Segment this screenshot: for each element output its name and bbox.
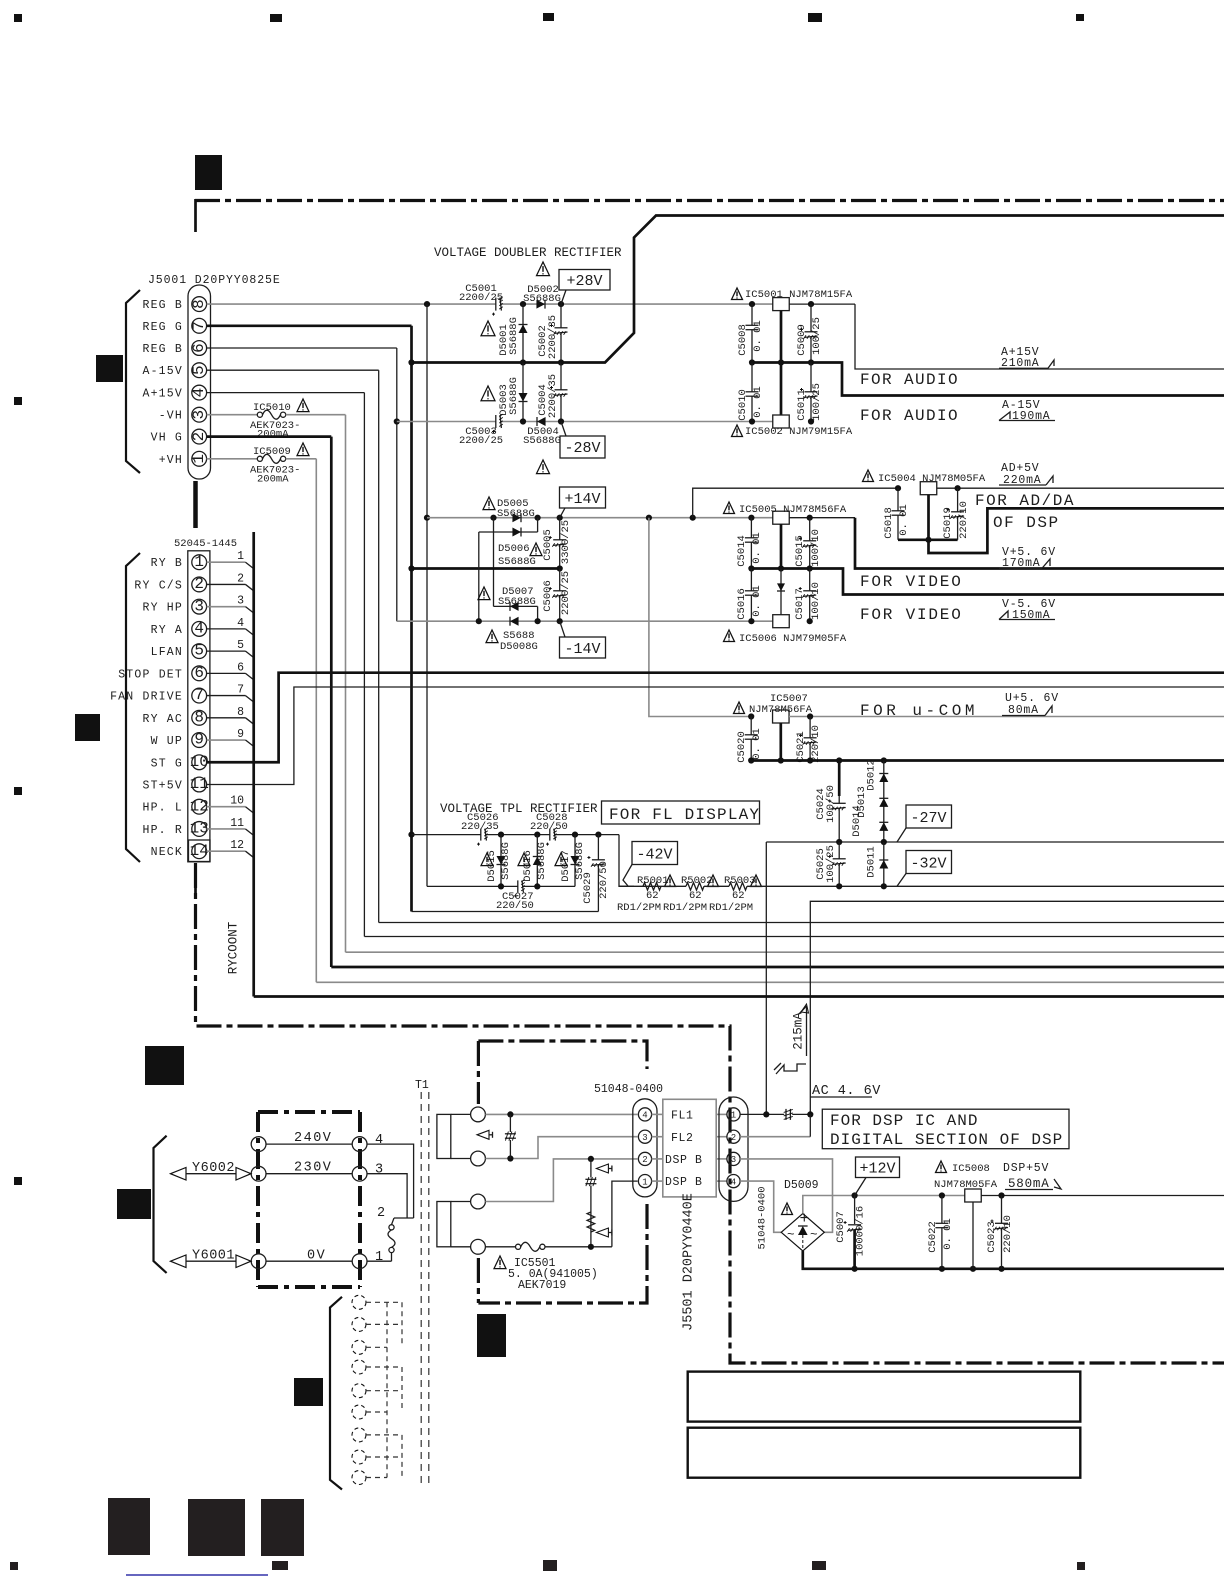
svg-text:8: 8 [237,706,244,719]
capacitor C5007 10000/16 [854,1196,856,1225]
J5001 pin 6 (REG B) [192,341,207,356]
wire mid ground row to A-15V rail [752,363,1224,396]
svg-text:62: 62 [689,890,702,902]
wire IC5005 ground [780,524,783,568]
svg-text:OF DSP: OF DSP [993,514,1060,532]
svg-text:6: 6 [190,343,208,353]
svg-text:4: 4 [375,1133,383,1148]
svg-text:D5014: D5014 [851,805,863,837]
capacitor C5015 100/10 [809,518,811,569]
resistor R5002 62 RD1/2PM [643,885,661,887]
svg-text:1: 1 [642,1177,647,1187]
capacitor C5029 220/50 [597,835,599,912]
capacitor C5017 100/10 [809,569,811,622]
svg-text:DSP B: DSP B [665,1176,703,1189]
svg-text:W UP: W UP [151,735,183,748]
wire V+5.6V output [855,518,1224,569]
svg-text:0. 01: 0. 01 [898,504,910,536]
wire pin1 +VH bus down at x=316.3 [315,459,317,983]
svg-text:6: 6 [237,661,244,674]
52045 pin 12 (HP. L) [192,799,207,814]
capacitor C5027 220/50 [518,879,522,893]
svg-text:215mA: 215mA [792,1012,806,1050]
arrow Y6002 [171,1168,187,1181]
svg-text:C5006: C5006 [542,580,554,612]
svg-text:220/50: 220/50 [530,821,568,833]
svg-text:RD1/2PM: RD1/2PM [709,902,753,914]
wire video mid row to V-5.6V [751,569,1224,595]
svg-text:100/10: 100/10 [810,529,822,567]
registration mark top 3 [543,13,554,21]
capacitor C5011 100/25 [810,363,812,422]
diode D5001 S5688G (vertical) [522,304,524,362]
svg-text:IC5001 NJM78M15FA: IC5001 NJM78M15FA [745,289,853,301]
wire winding1 top to 51048 pin4 [485,1113,637,1115]
svg-text:0. 01: 0. 01 [942,1218,954,1250]
sheet border left-middle (dash-dot) [196,863,1224,1363]
svg-text:S5688G: S5688G [498,556,536,568]
node +28V label box [559,270,610,291]
wire DSP B pin3 to bridge [740,1159,832,1232]
diode chain D5012 D5013 D5014 [883,761,885,843]
svg-text:J5001 D20PYY0825E: J5001 D20PYY0825E [148,274,281,287]
primary left bracket [154,1136,167,1273]
bottom small mark 3 [812,1561,826,1570]
svg-text:4: 4 [731,1177,736,1187]
wire 52045 pin 3 to ribbon [207,606,246,608]
svg-text:RY HP: RY HP [142,602,183,615]
52045 pin 7 (FAN DRIVE) [192,688,207,703]
svg-text:S5688G: S5688G [497,508,535,520]
wire pin3 -VH bus down at x=345.5 [345,415,347,953]
fold mark A [195,155,222,190]
svg-text:FOR AUDIO: FOR AUDIO [860,407,959,425]
52045 pin 6 (STOP DET) [192,666,207,681]
svg-text:RYCOONT: RYCOONT [227,921,241,974]
svg-text:C5022: C5022 [927,1221,939,1253]
svg-text:DSP B: DSP B [665,1154,703,1167]
51048 pin 3 [638,1130,651,1143]
svg-text:C5019: C5019 [942,507,954,539]
J5001 pin 7 (REG G) [192,318,207,333]
cable mark below J5001 [193,481,198,528]
wire AD feed from +14V rail [693,488,898,518]
svg-text:-42V: -42V [636,847,672,864]
svg-text:S5688G: S5688G [500,842,512,880]
wire IC5004 ground row [927,495,930,540]
wire pin8 REG B to +28V rail [207,303,773,305]
bottom square 1 [108,1498,150,1555]
svg-text:D5011: D5011 [866,846,878,878]
svg-text:14: 14 [190,842,209,860]
wire winding2 bottom to 51048 pin1 [612,1181,638,1247]
svg-text:2200/25: 2200/25 [459,292,503,304]
registration mark left 3 [14,1177,22,1185]
wire 52045 pin 13 to ribbon [207,828,246,830]
fold mark F [294,1378,323,1406]
J5001 pin 3 (-VH) [192,407,207,422]
svg-text:220/35: 220/35 [461,821,499,833]
interconnect box FL1/FL2/DSP B/DSP B [663,1099,716,1197]
svg-text:~: ~ [787,1228,795,1242]
svg-text:9: 9 [194,731,204,749]
svg-text:100/25: 100/25 [811,317,823,355]
svg-text:+: + [800,1210,810,1228]
registration mark top 2 [270,14,282,22]
capacitor C5003 2200/25 [496,414,500,429]
wire winding1 bottom to 51048 pin3 [485,1137,637,1159]
svg-text:5: 5 [237,639,244,652]
svg-text:VOLTAGE TPL RECTIFIER: VOLTAGE TPL RECTIFIER [440,802,598,816]
wire A+15V output with step [855,304,1224,369]
svg-text:RD1/2PM: RD1/2PM [617,902,661,914]
wire -42V line drop [619,835,634,887]
svg-text:9: 9 [237,728,244,741]
svg-text:12: 12 [230,839,244,852]
wire pin2 VH G (bus down at x=331.3) [207,435,332,438]
wire FL2 to AC4.6V vertical [740,1136,810,1138]
svg-text:1: 1 [194,553,204,571]
svg-text:2: 2 [190,432,208,442]
current step arrow [776,1064,806,1074]
svg-text:S5688G: S5688G [536,842,548,880]
svg-text:+28V: +28V [566,273,602,290]
svg-text:3: 3 [731,1155,736,1165]
svg-text:Y6002: Y6002 [192,1161,235,1176]
wire TPL bottom rail [498,883,504,889]
regulator IC5008 NJM78M05FA [936,1161,947,1173]
svg-text:2200/25: 2200/25 [560,571,572,615]
warning triangle below D5004 [537,460,550,474]
svg-text:ST G: ST G [151,757,183,770]
wire u-COM feed [649,518,751,717]
svg-text:0. 01: 0. 01 [752,386,764,418]
connector J5501 D20PYY0440E [719,1097,748,1201]
J5001 left bracket [126,290,140,473]
52045 pin 2 (RY C/S) [192,577,207,592]
svg-text:FOR FL DISPLAY: FOR FL DISPLAY [609,806,760,824]
svg-text:3: 3 [237,595,244,608]
svg-text:D5012: D5012 [866,759,878,791]
chassis arrow winding2 bottom [596,1228,608,1237]
svg-text:-27V: -27V [910,810,946,827]
wire 52045 pin 12 to ribbon [207,806,246,808]
revision box 2 [688,1428,1081,1478]
svg-text:IC5002 NJM79M15FA: IC5002 NJM79M15FA [745,426,853,438]
svg-text:5: 5 [190,365,208,375]
svg-text:FOR u-COM: FOR u-COM [860,702,978,720]
svg-text:S5688G: S5688G [523,435,561,447]
J5501 pin 3 [727,1152,740,1165]
51048 pin 4 [638,1108,651,1121]
capacitor C5004 2200/35 [560,363,562,422]
svg-text:AEK7019: AEK7019 [518,1279,566,1292]
svg-text:FL2: FL2 [671,1132,694,1145]
warning triangle left of D5001 [481,321,495,336]
svg-text:12: 12 [190,797,209,815]
J5501 pin 4 [727,1175,740,1188]
svg-text:-VH: -VH [159,410,183,423]
svg-text:10: 10 [190,753,209,771]
wire ST G (pin10) route [207,673,1224,763]
svg-text:C5007: C5007 [835,1211,847,1243]
capacitor C5014 0.01 [750,518,752,569]
J5501 pin 1 [727,1108,740,1121]
EMI capacitor across winding1 [509,1114,511,1158]
fuse IC5010 AEK7023-200mA on -VH [207,414,258,416]
diode D5011 [883,842,885,886]
svg-text:RD1/2PM: RD1/2PM [663,902,707,914]
svg-text:DIGITAL SECTION OF DSP: DIGITAL SECTION OF DSP [830,1131,1063,1149]
svg-text:FOR AUDIO: FOR AUDIO [860,371,959,389]
chassis arrow winding1 [477,1130,489,1139]
diode D5003 S5688G (vertical) [522,363,524,422]
wire pin4 A+15V (bus down at x=364.4) [207,392,365,394]
svg-text:VH G: VH G [151,432,183,445]
J5501 pin 2 [727,1130,740,1143]
svg-text:C5005: C5005 [542,529,554,561]
wire 52045 pin 7 to ribbon [207,695,246,697]
svg-text:200mA: 200mA [257,429,289,441]
svg-text:-14V: -14V [564,641,600,658]
capacitor C5019 220/10 [957,488,959,540]
warning triangle D5005 [483,497,495,510]
diode D5016 (up) [536,835,538,887]
diode D5015 (down) [500,835,502,887]
52045 pin 10 (ST G) [192,755,207,770]
transformer core dashed lines [420,1092,422,1484]
svg-text:1: 1 [731,1111,736,1121]
wire 52045 pin 5 to ribbon [207,650,246,652]
svg-text:REG B: REG B [142,343,183,356]
52045 pin 3 (RY HP) [192,599,207,614]
diode D5007 S5688G row [478,532,480,621]
wire IC5007 ground row to right edge [779,723,782,761]
svg-text:100/25: 100/25 [811,383,823,421]
svg-text:3: 3 [190,410,208,420]
wire DSP+5V rail [855,1195,965,1197]
thermal fuse on primary [392,1218,395,1225]
svg-text:+14V: +14V [564,491,600,508]
svg-text:IC5009: IC5009 [253,446,291,458]
revision box 1 [688,1372,1081,1422]
svg-text:IC5008: IC5008 [952,1163,990,1175]
svg-text:2: 2 [731,1133,736,1143]
capacitor C5020 0.01 [750,717,752,761]
fold mark B [96,355,123,382]
svg-text:220/10: 220/10 [958,501,970,539]
wire 52045 pin 9 to ribbon [207,739,246,741]
svg-text:REG B: REG B [142,299,183,312]
52045 pin 1 (RY B) [192,555,207,570]
node -28V label box [560,436,605,458]
svg-text:2200/35: 2200/35 [547,374,559,418]
52045 pin 14 (NECK) [192,844,207,859]
svg-text:C5008: C5008 [737,324,749,356]
diode D5005 S5688G [512,513,521,522]
diode D5017 (down) [574,835,576,887]
capacitor C5023 220/10 [1001,1196,1003,1269]
svg-text:4: 4 [237,617,244,630]
capacitor C5024 100/50 [838,761,841,797]
capacitor C5002 2200/35 [560,304,562,362]
svg-text:8: 8 [190,299,208,309]
resistor R5003 62 RD1/2PM [729,883,747,891]
svg-text:S5688G: S5688G [508,317,520,355]
svg-text:51048-0400: 51048-0400 [757,1186,769,1249]
svg-text:C5017: C5017 [794,588,806,620]
primary 240V tap [266,1143,352,1145]
wire AC4.6V line right [810,901,1224,1114]
svg-text:T1: T1 [415,1079,429,1092]
regulator IC5005 NJM78M56FA [724,502,735,514]
svg-text:230V: 230V [294,1161,332,1176]
blue footer line [126,1574,268,1576]
svg-text:FOR VIDEO: FOR VIDEO [860,573,963,591]
svg-text:IC5005 NJM78M56FA: IC5005 NJM78M56FA [739,504,847,516]
52045 pin 9 (W UP) [192,733,207,748]
svg-text:VOLTAGE DOUBLER RECTIFIER: VOLTAGE DOUBLER RECTIFIER [434,246,622,260]
node +12V label box [856,1157,900,1178]
wire pin5 A-15V (bus down at x=378.7) [207,369,379,371]
svg-text:0. 01: 0. 01 [751,532,763,564]
svg-text:RY A: RY A [151,624,183,637]
wire 52045 pin 1 to ribbon [207,561,246,563]
J5001 pin 2 (VH G) [192,429,207,444]
wire 52045 pin 6 to ribbon [207,672,246,674]
svg-text:100/25: 100/25 [825,845,837,883]
secondary winding 1 (FL) [437,1114,451,1158]
bottom small mark 4 [1077,1562,1085,1570]
registration mark top 1 [14,14,22,22]
warning triangle left of D5003 [481,386,495,401]
svg-text:7: 7 [237,684,244,697]
svg-text:2: 2 [377,1206,385,1221]
wire IC5008 ground [972,1202,974,1269]
diode D5004 S5688G [537,417,546,426]
svg-text:4: 4 [194,619,204,637]
svg-text:DSP+5V: DSP+5V [1003,1162,1049,1175]
capacitor C5008 0.01 [751,304,753,362]
svg-text:NECK: NECK [151,846,183,859]
svg-text:10000/16: 10000/16 [855,1206,867,1256]
J5001 pin 4 (A+15V) [192,385,207,400]
registration mark top 5 [1076,14,1084,21]
capacitor C5021 220/10 [809,717,811,761]
svg-text:S5688G: S5688G [508,377,520,415]
svg-text:HP. L: HP. L [142,802,183,815]
svg-text:RY C/S: RY C/S [134,579,183,592]
diode IC5006 input [780,569,782,616]
52045 pin 4 (RY A) [192,621,207,636]
svg-text:10: 10 [230,795,244,808]
wire -32V/-42V rail segments [619,885,643,887]
svg-text:3: 3 [642,1133,647,1143]
fold mark C [75,714,100,741]
capacitor C5025 100/25 [838,842,840,886]
svg-text:+VH: +VH [159,454,183,467]
wire -27V drop to FL1 line [765,842,767,1115]
svg-text:RY AC: RY AC [142,713,183,726]
svg-text:IC5006 NJM79M05FA: IC5006 NJM79M05FA [739,633,847,645]
primary jumper 2 [394,1217,414,1219]
svg-text:S5688G: S5688G [498,596,536,608]
svg-text:3: 3 [375,1163,383,1178]
capacitor C5022 0.01 [941,1196,943,1269]
fuse IC5501 5.0A(941005) AEK7019 [485,1246,515,1248]
svg-text:-28V: -28V [564,440,600,457]
wire 52045 pin 4 to ribbon [207,628,246,630]
wire +14V rail [427,517,773,519]
regulator IC5002 NJM79M15FA [773,415,790,428]
52045 pin 11 (ST+5V) [192,777,207,792]
primary 230V tap [266,1173,352,1175]
svg-text:100/50: 100/50 [825,785,837,823]
wire FL1 feed line [740,1113,810,1115]
primary 0V tap [266,1260,352,1262]
svg-text:C5009: C5009 [796,324,808,356]
node +14V label box [560,487,606,508]
svg-text:D5009: D5009 [784,1179,819,1192]
bottom small mark 2 [543,1560,557,1571]
bottom small mark 1 [272,1561,288,1570]
svg-text:C5015: C5015 [794,535,806,567]
51048 pin 1 [638,1175,651,1188]
wire pin6 REG B (bus down at x=396.8) [207,347,397,349]
wire -27V rail [766,841,1224,843]
svg-text:C5016: C5016 [736,588,748,620]
node -32V label box [906,851,952,874]
capacitor C5018 0.01 [897,488,899,540]
wire -28V bottom rail [397,421,773,423]
arrow Y6001 [171,1255,187,1268]
svg-text:13: 13 [190,820,209,838]
capacitor C5009 100/25 [810,304,812,362]
svg-text:IC5004 NJM78M05FA: IC5004 NJM78M05FA [878,473,986,485]
svg-text:R5001: R5001 [637,875,669,887]
svg-text:2: 2 [237,572,244,585]
regulator IC5004 NJM78M05FA [863,470,874,482]
node -42V label box [632,842,678,865]
svg-text:FL1: FL1 [671,1110,694,1123]
fold mark E [117,1189,151,1219]
svg-text:D5008G: D5008G [500,641,538,653]
svg-text:C5014: C5014 [736,535,748,567]
svg-text:0. 01: 0. 01 [751,728,763,760]
svg-text:51048-0400: 51048-0400 [594,1083,663,1096]
svg-text:C5011: C5011 [796,389,808,421]
resistor R5001 62 RD1/2PM [643,883,661,891]
svg-text:220/50: 220/50 [598,861,610,899]
svg-text:C5023: C5023 [986,1221,998,1253]
wire bridge + output to C5007 [803,1196,855,1214]
svg-text:~: ~ [810,1228,818,1242]
chassis arrow winding2 top [596,1164,608,1173]
bottom square 3 [261,1499,304,1556]
wire 52045 pin 2 to ribbon [207,583,246,585]
svg-text:11: 11 [190,775,209,793]
svg-text:C5020: C5020 [736,731,748,763]
52045 pin 8 (RY AC) [192,710,207,725]
svg-text:7: 7 [190,321,208,331]
svg-text:2: 2 [194,575,204,593]
capacitor C5026 220/35 [481,828,485,842]
svg-text:6: 6 [194,664,204,682]
registration mark top 4 [808,13,822,22]
svg-text:4: 4 [190,388,208,398]
svg-text:0. 01: 0. 01 [751,585,763,617]
svg-text:2200/25: 2200/25 [459,435,503,447]
